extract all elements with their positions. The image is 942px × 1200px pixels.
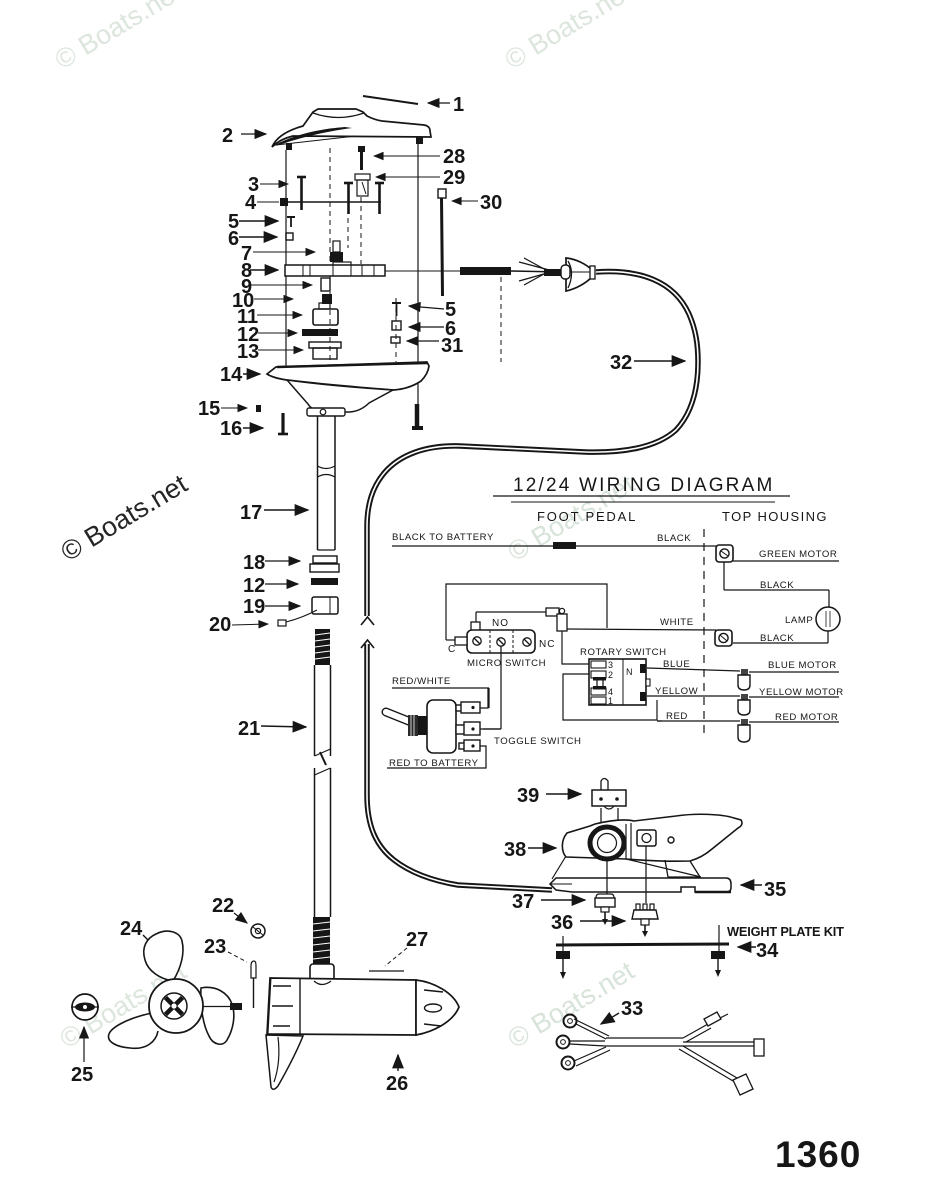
svg-text:29: 29 [443,167,465,189]
svg-text:33: 33 [621,998,643,1020]
svg-text:16: 16 [220,418,242,440]
svg-text:BLACK: BLACK [657,533,691,544]
svg-text:N: N [626,667,633,677]
svg-text:25: 25 [71,1064,93,1086]
svg-text:BLACK: BLACK [760,580,794,591]
svg-text:ROTARY SWITCH: ROTARY SWITCH [580,647,667,658]
svg-text:32: 32 [610,352,632,374]
svg-text:YELLOW: YELLOW [655,686,699,697]
svg-text:12/24 WIRING DIAGRAM: 12/24 WIRING DIAGRAM [513,475,775,496]
svg-text:1: 1 [453,94,464,116]
svg-text:NC: NC [539,639,555,650]
svg-text:27: 27 [406,929,428,951]
svg-text:6: 6 [228,228,239,250]
svg-text:15: 15 [198,398,220,420]
svg-text:31: 31 [441,335,463,357]
svg-text:35: 35 [764,879,786,901]
svg-text:24: 24 [120,918,143,940]
svg-text:34: 34 [756,940,779,962]
svg-text:18: 18 [243,552,265,574]
svg-text:TOGGLE SWITCH: TOGGLE SWITCH [494,736,581,747]
svg-text:20: 20 [209,614,231,636]
svg-text:3: 3 [608,660,613,670]
svg-text:WEIGHT PLATE KIT: WEIGHT PLATE KIT [727,924,844,939]
svg-text:17: 17 [240,502,262,524]
svg-text:TOP HOUSING: TOP HOUSING [722,509,828,524]
svg-text:30: 30 [480,192,502,214]
svg-text:38: 38 [504,839,526,861]
svg-text:BLUE MOTOR: BLUE MOTOR [768,660,837,671]
svg-text:1360: 1360 [775,1134,861,1175]
svg-text:C: C [448,644,455,655]
svg-text:WHITE: WHITE [660,617,694,628]
svg-text:19: 19 [243,596,265,618]
svg-text:YELLOW MOTOR: YELLOW MOTOR [759,687,844,698]
svg-text:21: 21 [238,718,260,740]
svg-text:RED TO BATTERY: RED TO BATTERY [389,758,479,769]
svg-text:2: 2 [222,125,233,147]
svg-text:26: 26 [386,1073,408,1095]
svg-text:23: 23 [204,936,226,958]
svg-text:36: 36 [551,912,573,934]
svg-text:13: 13 [237,341,259,363]
svg-text:MICRO SWITCH: MICRO SWITCH [467,658,546,669]
svg-text:RED: RED [666,711,688,722]
svg-text:GREEN MOTOR: GREEN MOTOR [759,549,837,560]
svg-text:39: 39 [517,785,539,807]
svg-text:RED/WHITE: RED/WHITE [392,676,451,687]
svg-text:12: 12 [243,575,265,597]
svg-text:2: 2 [608,670,613,680]
svg-text:28: 28 [443,146,465,168]
svg-text:4: 4 [245,192,257,214]
svg-text:1: 1 [608,696,613,706]
svg-text:14: 14 [220,364,243,386]
svg-text:RED MOTOR: RED MOTOR [775,712,838,723]
svg-text:FOOT PEDAL: FOOT PEDAL [537,509,637,524]
svg-text:NO: NO [492,618,509,629]
svg-text:LAMP: LAMP [785,615,813,626]
svg-text:BLACK: BLACK [760,633,794,644]
svg-text:BLACK TO BATTERY: BLACK TO BATTERY [392,532,494,543]
svg-text:37: 37 [512,891,534,913]
svg-text:22: 22 [212,895,234,917]
